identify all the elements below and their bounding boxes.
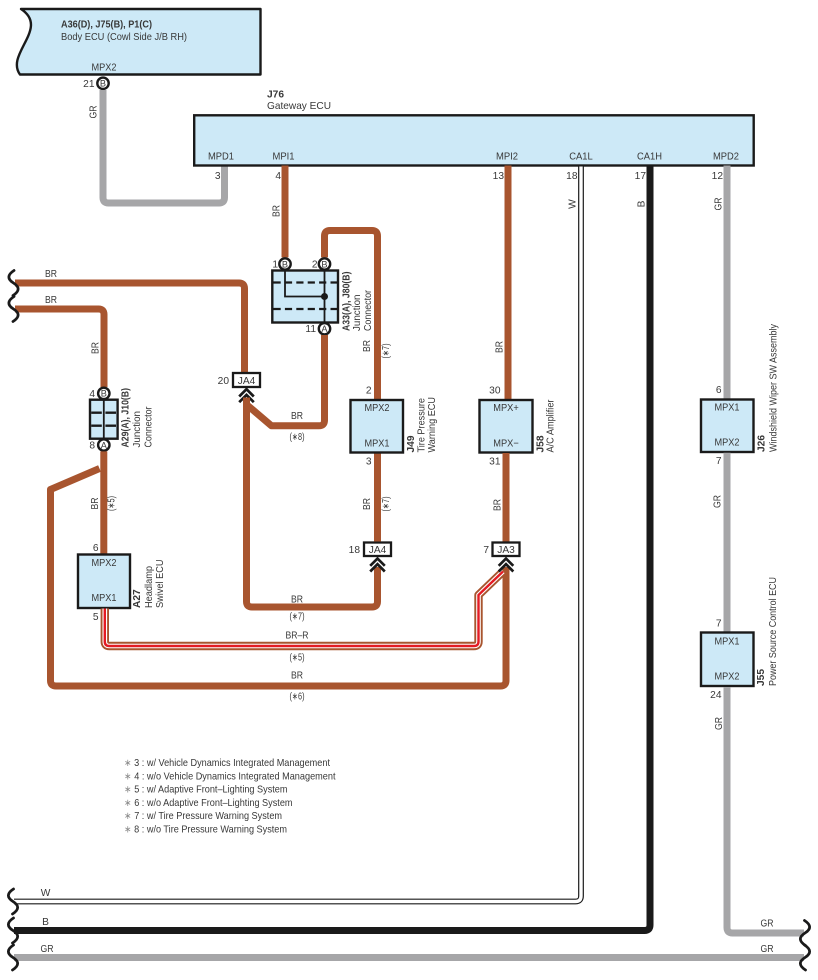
svg-text:J49: J49 [406,435,417,452]
svg-text:CA1H: CA1H [637,152,662,163]
svg-text:MPI2: MPI2 [496,152,518,163]
svg-text:A: A [321,324,328,334]
connector JA4 pin 18 [349,543,391,572]
svg-text:Windshield Wiper SW Assembly: Windshield Wiper SW Assembly [769,323,780,452]
svg-text:Gateway ECU: Gateway ECU [267,101,331,112]
svg-text:(∗5): (∗5) [107,496,118,511]
svg-text:GR: GR [761,944,774,955]
svg-text:MPX2: MPX2 [365,403,390,414]
wire BR-R from A27 pin 5 to JA3 pin 7 [105,572,503,664]
svg-text:J26: J26 [757,435,768,452]
svg-text:GR: GR [714,717,725,730]
svg-text:MPX1: MPX1 [715,637,740,648]
svg-text:B: B [42,917,49,928]
svg-text:∗ 4 : w/o Vehicle Dynamics Int: ∗ 4 : w/o Vehicle Dynamics Integrated Ma… [124,771,336,782]
wire BR from JA4-18 to J49 pin 3 [362,453,392,542]
A29 internal dashed row lines [91,413,116,426]
svg-text:MPX−: MPX− [493,439,519,450]
svg-text:3: 3 [366,457,372,468]
svg-text:3: 3 [215,171,221,182]
svg-text:JA4: JA4 [369,545,387,556]
svg-text:BR: BR [91,342,102,354]
svg-text:12: 12 [712,171,724,182]
svg-text:A/C Amplifier: A/C Amplifier [546,399,557,453]
svg-text:W: W [41,888,51,899]
svg-text:MPI1: MPI1 [273,152,295,163]
svg-text:2: 2 [312,260,318,271]
svg-text:24: 24 [710,690,722,701]
svg-text:1: 1 [272,260,278,271]
svg-text:BR: BR [493,499,504,511]
svg-text:Junction: Junction [132,411,143,448]
A33 internal dashed row line [274,281,338,283]
svg-text:Tire Pressure: Tire Pressure [417,398,428,453]
svg-text:18: 18 [566,171,578,182]
svg-text:Body ECU (Cowl Side J/B RH): Body ECU (Cowl Side J/B RH) [61,32,187,43]
svg-text:A27: A27 [132,589,143,608]
svg-text:Warning ECU: Warning ECU [427,397,438,453]
wire BR from Gateway MPI1 pin 4 to A33 pin 1 [272,166,286,258]
svg-text:GR: GR [714,198,725,211]
svg-text:BR: BR [362,340,373,352]
svg-text:Swivel ECU: Swivel ECU [155,560,166,609]
wire GR from off-page left to off-page right along bottom [8,944,809,970]
svg-text:30: 30 [489,386,501,397]
svg-text:MPX2: MPX2 [715,438,740,449]
ecu J26 Windshield Wiper SW Assembly [701,323,780,467]
svg-text:W: W [568,199,579,209]
wire BR from off-page left to JA4 pin 20 [9,269,245,373]
svg-text:7: 7 [483,545,489,556]
svg-text:BR: BR [45,295,57,306]
svg-text:(∗7): (∗7) [290,612,305,623]
svg-text:MPD1: MPD1 [208,152,234,163]
svg-text:MPX1: MPX1 [715,403,740,414]
svg-text:(∗7): (∗7) [381,344,392,359]
svg-text:MPD2: MPD2 [713,152,739,163]
svg-text:∗ 5 : w/ Adaptive Front–Lighti: ∗ 5 : w/ Adaptive Front–Lighting System [124,785,288,796]
svg-text:(∗5): (∗5) [290,653,305,664]
svg-text:4: 4 [275,171,281,182]
note legend [124,758,336,836]
svg-text:5: 5 [93,612,99,623]
svg-text:GR: GR [89,106,100,119]
svg-text:(∗6): (∗6) [290,692,305,703]
svg-text:20: 20 [218,376,230,387]
svg-text:8: 8 [89,441,95,452]
svg-text:Connector: Connector [144,406,155,448]
svg-text:31: 31 [489,457,501,468]
svg-text:MPX2: MPX2 [715,672,740,683]
svg-text:4: 4 [89,389,95,400]
ecu J55 Power Source Control ECU [701,577,779,701]
svg-text:MPX1: MPX1 [92,593,117,604]
wire GR from Body ECU pin 21 to Gateway MPD1 pin 3 [89,90,225,203]
junction connector A33(A), J80(B) [272,258,374,335]
svg-text:17: 17 [635,171,647,182]
wire GR from J55 pin 24 to off-page right [714,687,810,946]
svg-text:BR: BR [291,595,303,606]
svg-text:J55: J55 [756,669,767,686]
svg-text:∗ 3 : w/ Vehicle Dynamics Inte: ∗ 3 : w/ Vehicle Dynamics Integrated Man… [124,758,330,769]
wire BR from JA4-20 down and right to JA4-18 [247,398,378,623]
connector A36(D), J75(B), P1(C) Body ECU box [17,9,261,75]
wire B from Gateway CA1H pin 17 to off-page bottom left [8,166,650,944]
JA4-20 chevron marker [239,389,254,396]
svg-text:GR: GR [761,919,774,930]
svg-text:BR: BR [90,498,101,510]
svg-text:J76: J76 [267,90,284,101]
JA4-18 chevron marker [370,559,385,566]
svg-text:BR: BR [291,671,303,682]
ecu A27 Headlamp Swivel ECU [78,543,166,623]
A33 internal bus lines [285,271,325,322]
svg-text:CA1L: CA1L [569,152,593,163]
pin 21 (B) of Body ECU [83,78,109,90]
svg-text:21: 21 [83,79,95,90]
svg-text:B: B [637,200,648,207]
svg-text:Junction: Junction [352,295,363,332]
svg-text:MPX1: MPX1 [365,439,390,450]
svg-text:BR: BR [362,498,373,510]
wire GR from Gateway MPD2 pin 12 to J26 pin 6 [714,166,728,400]
svg-text:MPX2: MPX2 [92,63,117,74]
svg-text:MPX+: MPX+ [493,403,519,414]
connector JA4 pin 20 [218,373,260,402]
wire BR from A29 pin 8 to A27 pin 6 [90,451,118,554]
svg-text:JA4: JA4 [238,376,256,387]
wire BR from J58 pin 31 to JA3 pin 7 [493,453,507,542]
A33 internal dashed row line [274,308,338,310]
svg-text:A33(A), J80(B): A33(A), J80(B) [342,272,353,332]
svg-text:BR–R: BR–R [286,631,309,642]
ecu J58 A/C Amplifier [480,386,557,468]
svg-text:18: 18 [349,545,361,556]
svg-text:B: B [321,259,327,269]
svg-text:2: 2 [366,386,372,397]
wire BR from Gateway MPI2 pin 13 to J58 pin 30 [495,166,509,401]
junction connector A29(A), J10(B) [89,388,154,452]
wire BR from JA3-7 down, left and up to A29 pin 8 branch [51,469,507,703]
svg-text:Headlamp: Headlamp [144,566,155,608]
connector JA3 pin 7 [483,543,519,572]
A33 internal junction dot [321,293,328,300]
svg-text:BR: BR [495,341,506,353]
svg-text:BR: BR [291,411,303,422]
svg-text:Power Source Control ECU: Power Source Control ECU [768,577,779,686]
svg-text:A: A [101,440,108,450]
svg-text:A36(D), J75(B), P1(C): A36(D), J75(B), P1(C) [61,20,152,31]
svg-text:7: 7 [716,619,722,630]
wire W from Gateway CA1L pin 18 to off-page bottom left [8,166,581,915]
svg-text:A29(A), J10(B): A29(A), J10(B) [121,388,132,448]
svg-text:B: B [100,79,106,89]
svg-text:GR: GR [713,495,724,508]
svg-text:∗ 8 : w/o Tire Pressure Warnin: ∗ 8 : w/o Tire Pressure Warning System [124,825,287,836]
svg-text:7: 7 [716,456,722,467]
svg-text:6: 6 [716,385,722,396]
wire GR from J26 pin 7 to J55 pin 7 [713,453,728,632]
wire BR from A33 pin 2 loop to J49 pin 2 [325,231,393,401]
svg-text:13: 13 [493,171,505,182]
JA3-7 chevron marker [499,559,514,566]
svg-text:(∗8): (∗8) [290,432,305,443]
wire BR from off-page left to A29 pin 4 [9,295,104,387]
svg-text:∗ 7 : w/ Tire Pressure Warning: ∗ 7 : w/ Tire Pressure Warning System [124,811,282,822]
A29 internal bus line [103,400,105,439]
ecu J49 Tire Pressure Warning ECU [351,386,439,468]
svg-text:∗ 6 : w/o Adaptive Front–Light: ∗ 6 : w/o Adaptive Front–Lighting System [124,798,293,809]
wire BR from JA4-20 branch to A33 pin 11 [247,335,325,443]
svg-text:MPX2: MPX2 [92,558,117,569]
svg-text:(∗7): (∗7) [381,497,392,512]
svg-text:Connector: Connector [363,289,374,331]
svg-text:GR: GR [41,944,54,955]
svg-text:11: 11 [305,324,316,335]
svg-text:JA3: JA3 [497,545,515,556]
svg-text:B: B [101,389,107,399]
svg-text:BR: BR [272,205,283,217]
ecu J76 Gateway ECU box [194,90,754,166]
svg-text:6: 6 [93,543,99,554]
svg-text:BR: BR [45,269,57,280]
pin numbers of Gateway ECU [215,171,723,182]
svg-text:B: B [282,259,288,269]
